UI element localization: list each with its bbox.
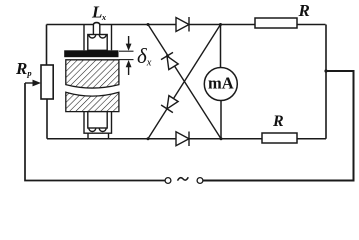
node top-right xyxy=(219,23,222,26)
gap dimension arrow upper xyxy=(126,36,132,51)
diode D4 bottom rail xyxy=(176,132,189,147)
wire wiper to bottom xyxy=(25,83,165,181)
resistor R top xyxy=(255,1,310,28)
potentiometer Rp body xyxy=(41,65,53,99)
svg-text:mA: mA xyxy=(208,73,234,92)
diode D3 lower diagonal xyxy=(161,96,178,113)
gap dimension arrow lower xyxy=(126,60,132,75)
wire mid-right vertical xyxy=(325,25,327,139)
svg-text:R: R xyxy=(272,113,284,130)
wire outer right loop xyxy=(203,71,354,181)
coil L lower terminals xyxy=(88,133,109,139)
node supply tap xyxy=(324,69,327,72)
armature plate (black bar) xyxy=(64,50,118,57)
node top-left xyxy=(147,23,150,26)
core upper (hatched) xyxy=(66,60,119,88)
wire bottom rail xyxy=(47,138,326,140)
wire diagonal A xyxy=(148,25,221,139)
coil L lower : outer bracket xyxy=(84,112,112,134)
coil L upper : former with turns xyxy=(88,25,107,50)
resistor R bottom xyxy=(262,113,297,143)
wire meter branch xyxy=(220,25,223,139)
svg-text:R: R xyxy=(298,1,310,20)
source terminal left xyxy=(165,178,171,184)
label AC source xyxy=(178,177,189,180)
source terminal right xyxy=(197,178,203,184)
core lower (hatched) xyxy=(66,92,119,111)
milliammeter mA xyxy=(204,68,237,101)
wiper arrow of Rp xyxy=(25,80,41,87)
node bottom-right xyxy=(220,137,223,140)
wire potentiometer top lead xyxy=(46,25,48,66)
coil L lower : former with turns xyxy=(88,112,107,132)
wire diagonal B xyxy=(148,25,221,139)
diode D1 top rail xyxy=(176,17,189,32)
wire top rail xyxy=(47,23,326,25)
gap ticks xyxy=(119,51,134,59)
node bottom-left xyxy=(147,137,150,140)
coil L upper : outer bracket xyxy=(84,25,112,51)
diode D2 upper diagonal xyxy=(161,52,178,69)
wire potentiometer bottom lead xyxy=(46,99,48,139)
